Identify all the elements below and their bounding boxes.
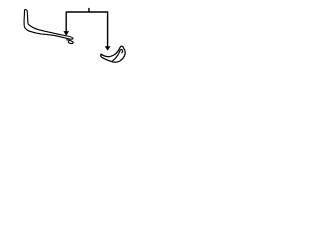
strip right end lower curl (67, 40, 73, 44)
tick mark on bracket (88, 8, 90, 12)
arrowhead to end piece (105, 46, 111, 51)
leader bracket horizontal line (66, 11, 109, 13)
end piece inner rolled-lip line (113, 49, 123, 60)
leader vertical to end piece (107, 12, 109, 47)
molding strip (long part): top edge, right cap, bottom edge, left cap, hook loop (24, 10, 73, 40)
end piece (small part): outer outline with hairpin tip (101, 46, 125, 62)
arrowhead to strip (63, 31, 69, 36)
leader vertical to strip (65, 12, 67, 32)
